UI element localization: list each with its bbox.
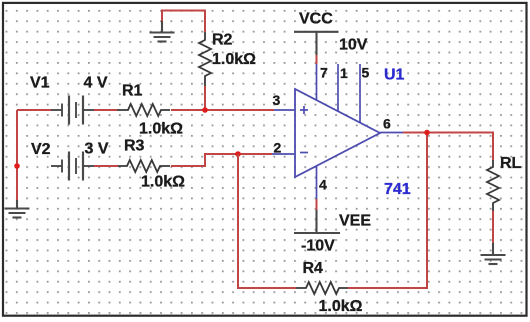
resistor R4 (296, 282, 348, 294)
svg-text:-10V: -10V (301, 238, 335, 255)
svg-text:2: 2 (274, 140, 282, 156)
wire: op-amp output to RL (403, 133, 493, 161)
resistor R3 (118, 160, 170, 172)
svg-text:3 V: 3 V (85, 141, 109, 158)
pin 6 lead (380, 132, 403, 134)
VCC supply wire (red segment) (316, 54, 318, 64)
svg-text:R4: R4 (303, 260, 324, 277)
wire: R3 to op-amp pin 2 with step (171, 154, 272, 166)
wire: R2 bottom to node A (204, 86, 206, 110)
pin 3 lead (274, 109, 295, 111)
svg-text:1.0kΩ: 1.0kΩ (212, 51, 256, 68)
battery V2 (51, 152, 94, 181)
junction node A (R1/R2) (202, 107, 208, 113)
wire: V1 plus to R1 (94, 109, 117, 111)
op-amp U1 triangle (295, 89, 380, 177)
svg-text:VEE: VEE (339, 213, 371, 230)
wire: R4 to output node (348, 133, 427, 289)
op-amp plus sign (300, 106, 308, 114)
svg-text:3: 3 (273, 92, 281, 108)
junction node at left rail / V2 (14, 163, 20, 169)
VCC power symbol (294, 32, 339, 55)
svg-text:R2: R2 (212, 32, 233, 49)
resistor RL (487, 160, 499, 211)
svg-text:5: 5 (362, 65, 370, 81)
pin 4 lead (316, 166, 318, 200)
ground symbol (bottom-left) (5, 200, 30, 218)
svg-text:VCC: VCC (299, 11, 333, 28)
VEE power symbol (294, 210, 340, 233)
VEE supply wire (red segment) (316, 199, 318, 211)
svg-text:10V: 10V (339, 37, 368, 54)
pin 7 lead (316, 64, 318, 101)
wire: V2 to R3 (94, 165, 118, 167)
svg-text:1.0kΩ: 1.0kΩ (319, 298, 363, 315)
svg-text:R1: R1 (122, 83, 143, 100)
wire: RL bottom to ground (492, 211, 494, 245)
wire: feedback left drop to R4 (238, 154, 296, 288)
svg-text:RL: RL (500, 155, 522, 172)
svg-text:U1: U1 (384, 67, 405, 84)
svg-text:R3: R3 (124, 138, 145, 155)
svg-text:6: 6 (383, 116, 391, 132)
svg-text:1.0kΩ: 1.0kΩ (141, 174, 185, 191)
op-amp minus sign (300, 152, 308, 154)
junction node C (output/feedback) (424, 130, 430, 136)
wire: left rail V1 to V2 to ground (17, 110, 51, 201)
wire: top ground to R2 top (162, 11, 205, 33)
ground symbol (bottom-right) (481, 243, 506, 264)
battery V1 (51, 96, 94, 125)
pin 5 lead (359, 64, 361, 123)
svg-text:V2: V2 (31, 141, 51, 158)
resistor R2 (199, 32, 211, 86)
svg-text:741: 741 (384, 181, 411, 198)
svg-text:7: 7 (320, 65, 328, 81)
wire: R1 to op-amp pin 3 (171, 109, 274, 111)
svg-text:4 V: 4 V (84, 75, 108, 92)
svg-text:1: 1 (340, 65, 348, 81)
ground symbol (top, near R2) (150, 21, 175, 42)
resistor R1 (117, 104, 170, 116)
junction node B (inverting input / feedback) (235, 151, 241, 157)
pin 2 lead (272, 153, 295, 155)
svg-text:V1: V1 (30, 75, 50, 92)
pin 1 lead (337, 64, 339, 112)
svg-text:4: 4 (319, 177, 327, 193)
svg-text:1.0kΩ: 1.0kΩ (139, 121, 183, 138)
